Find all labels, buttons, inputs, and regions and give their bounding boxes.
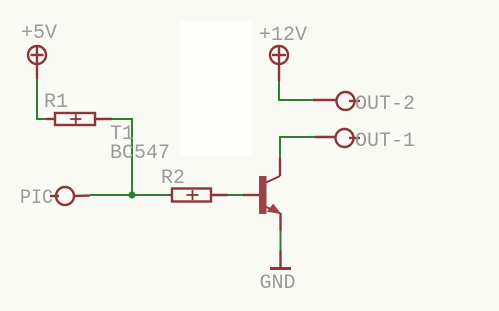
svg-text:OUT-2: OUT-2: [355, 93, 415, 116]
svg-text:GND: GND: [260, 272, 296, 295]
svg-text:PIC: PIC: [20, 187, 53, 210]
svg-text:BC547: BC547: [110, 142, 170, 165]
svg-text:OUT-1: OUT-1: [355, 130, 415, 153]
svg-text:+5V: +5V: [21, 22, 57, 45]
svg-text:R1: R1: [44, 91, 68, 114]
svg-text:R2: R2: [161, 167, 185, 190]
svg-text:+12V: +12V: [259, 24, 307, 47]
